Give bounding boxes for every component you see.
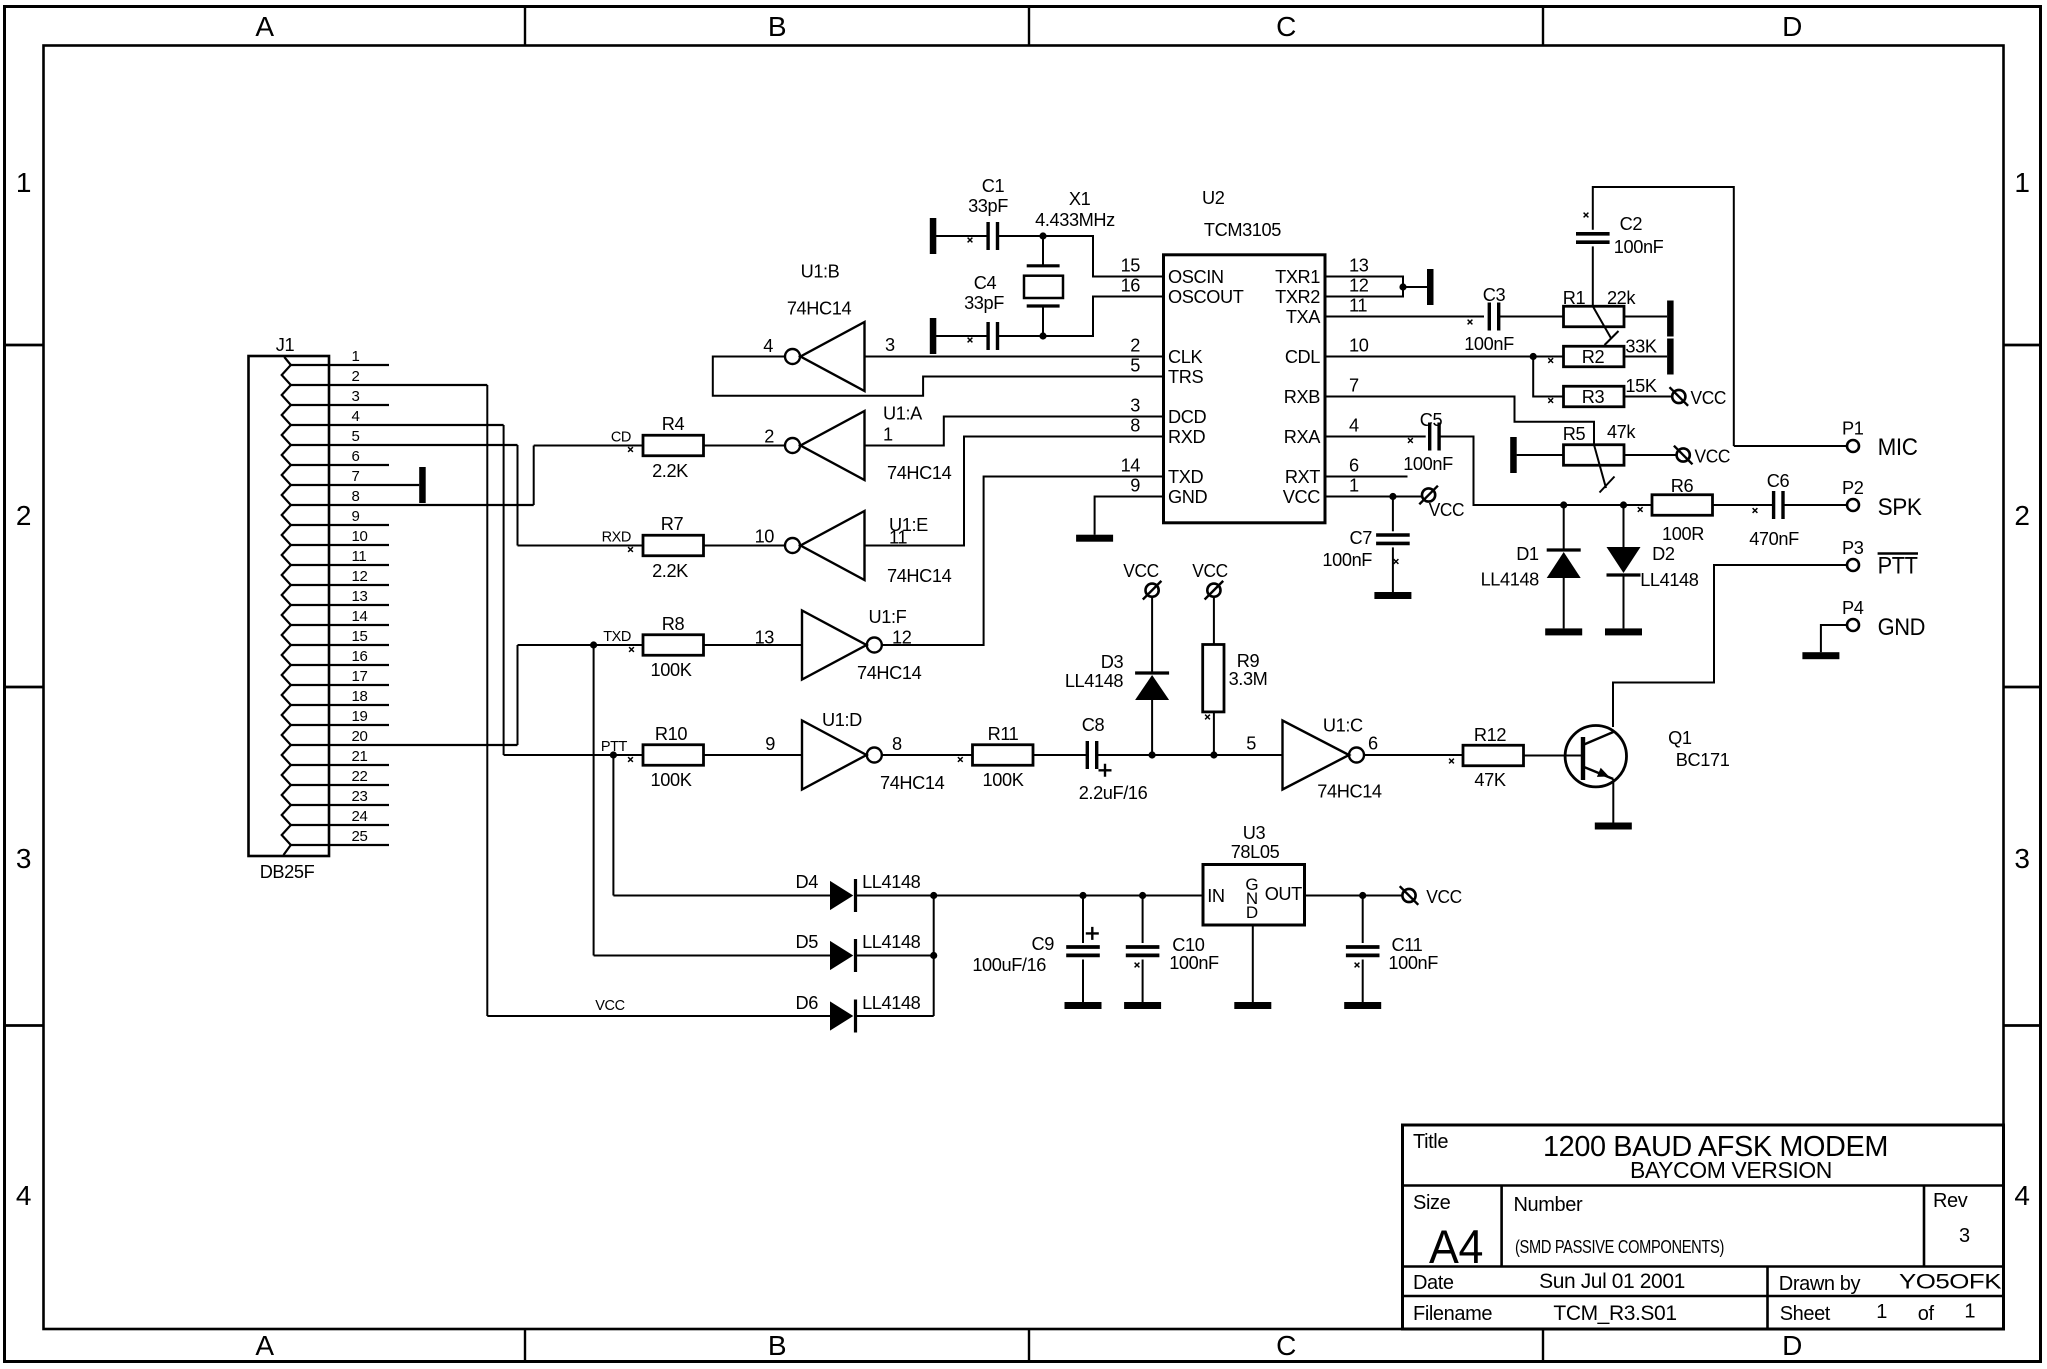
diode D5 xyxy=(594,939,934,972)
svg-text:33K: 33K xyxy=(1625,337,1656,357)
plus sign of C9 xyxy=(1086,927,1099,940)
U2 GND pin wire and ground xyxy=(1076,497,1163,542)
wire VCC pin to power port xyxy=(1325,496,1422,498)
resistor R3 xyxy=(1564,386,1625,407)
wire TXD row xyxy=(518,644,644,646)
wire U1:A output to DCD xyxy=(865,417,1164,446)
svg-text:U1:D: U1:D xyxy=(822,710,862,730)
svg-text:BC171: BC171 xyxy=(1676,750,1730,770)
diode D4 xyxy=(613,879,933,912)
svg-text:100K: 100K xyxy=(651,770,692,790)
power port VCC at D3 xyxy=(1146,584,1159,597)
junction dot D1 xyxy=(1560,501,1567,508)
inverter U1:E xyxy=(801,511,865,580)
svg-text:C: C xyxy=(1276,11,1296,42)
svg-text:R9: R9 xyxy=(1237,651,1260,671)
J1 pin 9 stub and number xyxy=(291,508,389,525)
trimmer R1 body xyxy=(1564,306,1625,327)
svg-text:C11: C11 xyxy=(1392,935,1423,955)
wire C5 to SPK row xyxy=(1439,437,1652,506)
svg-text:1: 1 xyxy=(883,425,893,445)
J1 pin 7 stub and number xyxy=(291,468,419,485)
svg-text:4.433MHz: 4.433MHz xyxy=(1035,210,1115,230)
svg-text:B: B xyxy=(768,1330,786,1361)
svg-text:SPK: SPK xyxy=(1878,494,1922,521)
svg-text:74HC14: 74HC14 xyxy=(857,663,922,683)
svg-text:C4: C4 xyxy=(974,273,997,293)
svg-text:9: 9 xyxy=(352,508,360,525)
wire pin2 to VCC/D6 row xyxy=(486,385,488,1016)
svg-text:8: 8 xyxy=(352,488,360,505)
svg-text:14: 14 xyxy=(352,608,368,625)
regulator U3 body xyxy=(1203,865,1305,926)
J1 pin 15 stub and number xyxy=(291,628,389,645)
pin marker C3 xyxy=(1468,320,1473,325)
wire R12 to Q1 base xyxy=(1524,755,1582,757)
junction dot VCC pin xyxy=(1389,493,1396,500)
svg-text:10: 10 xyxy=(1349,336,1369,356)
svg-text:15K: 15K xyxy=(1625,376,1656,396)
svg-text:25: 25 xyxy=(352,828,368,845)
svg-text:R10: R10 xyxy=(655,724,687,744)
svg-text:19: 19 xyxy=(352,708,368,725)
J1 pin 10 stub and number xyxy=(291,528,389,545)
transistor Q1 xyxy=(1565,726,1632,830)
pin marker C7 xyxy=(1394,559,1399,564)
U2 left pin 8 RXD xyxy=(1130,416,1205,448)
wire R7 to U1:E input xyxy=(704,545,786,547)
ground bar of C1 xyxy=(930,218,937,254)
svg-text:16: 16 xyxy=(1121,276,1141,296)
ground bar of R1 xyxy=(1667,301,1674,337)
J1 pin 23 stub and number xyxy=(291,788,389,805)
svg-text:P1: P1 xyxy=(1842,419,1864,439)
svg-text:2: 2 xyxy=(2014,500,2029,531)
svg-text:U1:C: U1:C xyxy=(1323,716,1363,736)
svg-text:U1:F: U1:F xyxy=(869,607,907,627)
svg-text:1: 1 xyxy=(16,167,31,198)
svg-text:P3: P3 xyxy=(1842,538,1864,558)
svg-text:LL4148: LL4148 xyxy=(1640,570,1699,590)
connector J1 body xyxy=(249,356,330,856)
svg-text:VCC: VCC xyxy=(1691,388,1727,408)
svg-text:3: 3 xyxy=(1959,1225,1970,1247)
svg-text:R3: R3 xyxy=(1582,387,1605,407)
svg-text:12: 12 xyxy=(352,568,368,585)
J1 pin 14 stub and number xyxy=(291,608,389,625)
power port VCC at R3 xyxy=(1672,390,1685,403)
svg-text:PTT: PTT xyxy=(1878,553,1919,580)
wire ground to R5 xyxy=(1517,454,1564,456)
svg-text:13: 13 xyxy=(755,628,775,648)
pin marker C10 xyxy=(1135,963,1140,968)
svg-text:100K: 100K xyxy=(651,660,692,680)
svg-text:OSCOUT: OSCOUT xyxy=(1168,287,1244,307)
svg-text:100nF: 100nF xyxy=(1614,237,1664,257)
svg-text:R8: R8 xyxy=(662,614,685,634)
svg-text:GND: GND xyxy=(1168,487,1207,507)
svg-text:IN: IN xyxy=(1207,886,1224,906)
svg-text:C6: C6 xyxy=(1767,471,1790,491)
trimmer R5 wiper xyxy=(1594,445,1615,493)
svg-text:100uF/16: 100uF/16 xyxy=(972,955,1046,975)
U2 left pin 5 TRS xyxy=(1130,356,1203,388)
svg-text:78L05: 78L05 xyxy=(1231,842,1280,862)
junction dot TXR xyxy=(1399,283,1406,290)
wire R9 node to U1:C xyxy=(1214,754,1283,756)
U2 right pin 1 VCC xyxy=(1283,476,1359,508)
capacitor C10 xyxy=(1124,896,1161,1010)
capacitor C6 xyxy=(1772,491,1775,519)
wire CD row xyxy=(534,445,643,447)
svg-text:D1: D1 xyxy=(1516,544,1539,564)
svg-text:1: 1 xyxy=(1349,476,1359,496)
U2 right pin 12 TXR2 xyxy=(1275,276,1369,308)
wire C6 to SPK port xyxy=(1783,504,1847,506)
svg-text:10: 10 xyxy=(352,528,368,545)
svg-text:C5: C5 xyxy=(1420,410,1443,430)
wire U1:B feedback loop to TRS xyxy=(713,357,1164,396)
wire GND port to ground xyxy=(1802,625,1847,659)
svg-text:C2: C2 xyxy=(1620,214,1643,234)
svg-text:CDL: CDL xyxy=(1285,347,1320,367)
J1 pin 6 stub and number xyxy=(291,448,389,465)
svg-text:74HC14: 74HC14 xyxy=(787,299,852,319)
junction dot C10 xyxy=(1139,892,1146,899)
junction dot R9 xyxy=(1210,751,1217,758)
svg-text:VCC: VCC xyxy=(1695,447,1731,467)
pin marker R8 xyxy=(629,647,634,652)
svg-text:24: 24 xyxy=(352,808,368,825)
wire R8 to U1:F input xyxy=(704,644,803,646)
wire C8 node to R9 xyxy=(1152,754,1214,756)
svg-text:100nF: 100nF xyxy=(1169,953,1219,973)
U2 left pin 16 OSCOUT xyxy=(1121,276,1244,308)
pin marker C4 xyxy=(968,338,973,343)
svg-text:13: 13 xyxy=(1349,256,1369,276)
svg-text:D2: D2 xyxy=(1652,544,1675,564)
pin marker R2 xyxy=(1548,358,1553,363)
svg-text:74HC14: 74HC14 xyxy=(887,566,952,586)
power port VCC at U3 output xyxy=(1402,889,1415,902)
svg-text:A: A xyxy=(255,11,274,42)
svg-text:RXB: RXB xyxy=(1284,387,1320,407)
pin marker R10 xyxy=(628,757,633,762)
U3 GND label xyxy=(1245,875,1258,922)
svg-text:Filename: Filename xyxy=(1413,1303,1492,1325)
wire C4 node to OSCOUT xyxy=(1043,297,1164,337)
svg-text:A4: A4 xyxy=(1429,1220,1483,1273)
svg-text:B: B xyxy=(768,11,786,42)
J1 pin 18 stub and number xyxy=(291,688,389,705)
svg-text:5: 5 xyxy=(1130,356,1140,376)
svg-text:RXD: RXD xyxy=(1168,427,1205,447)
J1 pin 3 stub and number xyxy=(291,388,389,405)
svg-text:4: 4 xyxy=(763,336,773,356)
junction dot C11 xyxy=(1359,892,1366,899)
svg-text:of: of xyxy=(1918,1303,1935,1325)
pin marker C6 xyxy=(1753,508,1758,513)
svg-text:TXR2: TXR2 xyxy=(1275,287,1320,307)
svg-text:3: 3 xyxy=(1130,396,1140,416)
svg-text:2.2K: 2.2K xyxy=(652,461,688,481)
J1 pin 21 stub and number xyxy=(291,748,389,765)
svg-text:Size: Size xyxy=(1413,1192,1451,1214)
capacitor C11 xyxy=(1344,896,1381,1010)
wire R2 to ground bar xyxy=(1624,356,1667,358)
svg-text:BAYCOM VERSION: BAYCOM VERSION xyxy=(1630,1157,1832,1183)
pin marker R11 xyxy=(958,757,963,762)
inverter U1:D xyxy=(802,721,867,790)
pin marker R9 xyxy=(1205,715,1210,720)
svg-text:1: 1 xyxy=(352,348,360,365)
ground bar of R2 xyxy=(1667,339,1674,375)
svg-text:R1: R1 xyxy=(1563,288,1586,308)
wire RXD row xyxy=(518,545,644,547)
svg-text:CLK: CLK xyxy=(1168,347,1202,367)
inverter U1:B xyxy=(801,322,865,391)
svg-text:100K: 100K xyxy=(983,770,1024,790)
svg-text:47K: 47K xyxy=(1474,770,1505,790)
pin marker C1 xyxy=(968,238,973,243)
pin marker C11 xyxy=(1355,963,1360,968)
svg-text:VCC: VCC xyxy=(595,998,624,1014)
svg-text:100nF: 100nF xyxy=(1464,334,1514,354)
left band row dividers xyxy=(5,344,44,347)
svg-text:6: 6 xyxy=(1368,734,1378,754)
U2 right pin 10 CDL xyxy=(1285,336,1369,368)
wire pin8 up to CD row xyxy=(533,446,535,506)
inverter U1:F xyxy=(802,611,867,680)
svg-text:TXR1: TXR1 xyxy=(1275,267,1320,287)
wire RXB to R5 wiper xyxy=(1325,397,1594,445)
wire CDL to R2 xyxy=(1325,356,1564,358)
J1 pin 16 stub and number xyxy=(291,648,389,665)
wire U1:B input to CLK pin xyxy=(865,356,1164,358)
svg-text:9: 9 xyxy=(1130,476,1140,496)
svg-text:74HC14: 74HC14 xyxy=(1317,782,1382,802)
svg-text:Sun Jul 01 2001: Sun Jul 01 2001 xyxy=(1539,1270,1685,1293)
pin marker R3 xyxy=(1548,398,1553,403)
svg-text:R4: R4 xyxy=(662,414,685,434)
svg-text:2: 2 xyxy=(352,368,360,385)
svg-text:16: 16 xyxy=(352,648,368,665)
svg-text:VCC: VCC xyxy=(1283,487,1320,507)
wire U1:C output to R12 xyxy=(1364,754,1463,756)
wire R6 to C6 xyxy=(1713,504,1774,506)
U2 left pin 3 DCD xyxy=(1130,396,1206,428)
svg-text:D: D xyxy=(1782,1330,1802,1361)
J1 pin 12 stub and number xyxy=(291,568,389,585)
capacitor C9 xyxy=(1065,896,1102,1010)
svg-text:R2: R2 xyxy=(1582,347,1605,367)
svg-text:D: D xyxy=(1782,11,1802,42)
power port VCC at R9 xyxy=(1207,584,1220,597)
svg-text:Title: Title xyxy=(1413,1131,1448,1153)
right band row dividers xyxy=(2004,344,2041,347)
svg-text:LL4148: LL4148 xyxy=(1065,671,1124,691)
svg-text:12: 12 xyxy=(1349,276,1369,296)
svg-text:33pF: 33pF xyxy=(968,196,1008,216)
resistor R7 xyxy=(643,535,704,556)
svg-text:3: 3 xyxy=(16,843,31,874)
J1 pin 1 stub and number xyxy=(291,348,389,365)
J1 pin 19 stub and number xyxy=(291,708,389,725)
title block frame xyxy=(1403,1125,2004,1329)
svg-text:C8: C8 xyxy=(1082,715,1105,735)
svg-text:1: 1 xyxy=(1964,1301,1975,1323)
wire U1:D output to R11 xyxy=(882,754,973,756)
junction dot PTT row xyxy=(610,751,617,758)
svg-text:3: 3 xyxy=(885,335,895,355)
svg-text:RXD: RXD xyxy=(602,530,631,546)
svg-text:D4: D4 xyxy=(796,872,819,892)
svg-text:13: 13 xyxy=(352,588,368,605)
U2 right pin 13 TXR1 xyxy=(1275,256,1369,288)
svg-text:8: 8 xyxy=(892,734,902,754)
J1 pin 2 stub and number xyxy=(291,368,488,385)
svg-text:LL4148: LL4148 xyxy=(862,872,921,892)
svg-text:7: 7 xyxy=(352,468,360,485)
U2 right pin 7 RXB xyxy=(1284,376,1359,408)
svg-text:C10: C10 xyxy=(1172,935,1204,955)
trimmer R5 body xyxy=(1564,445,1625,466)
svg-text:100nF: 100nF xyxy=(1388,953,1438,973)
resistor R10 xyxy=(643,745,704,766)
svg-text:22k: 22k xyxy=(1607,288,1636,308)
svg-text:TXA: TXA xyxy=(1286,307,1321,327)
capacitor C2 xyxy=(1576,187,1734,446)
port P2 circle xyxy=(1847,499,1859,511)
ground bar of TXR xyxy=(1427,269,1434,305)
U2 right pin 6 RXT xyxy=(1285,456,1359,488)
J1 pin 22 stub and number xyxy=(291,768,389,785)
svg-text:VCC: VCC xyxy=(1429,500,1465,520)
svg-text:10: 10 xyxy=(755,527,775,547)
svg-text:Rev: Rev xyxy=(1933,1190,1968,1212)
svg-text:100nF: 100nF xyxy=(1403,454,1453,474)
svg-text:(SMD PASSIVE COMPONENTS): (SMD PASSIVE COMPONENTS) xyxy=(1515,1236,1724,1257)
power port VCC at U2 xyxy=(1422,488,1435,501)
svg-text:CD: CD xyxy=(611,430,631,446)
svg-text:15: 15 xyxy=(1121,256,1141,276)
resistor R6 xyxy=(1652,495,1713,516)
resistor R4 xyxy=(643,435,704,456)
svg-text:14: 14 xyxy=(1121,456,1141,476)
svg-text:C3: C3 xyxy=(1483,285,1506,305)
port P1 circle xyxy=(1847,440,1859,452)
svg-text:TRS: TRS xyxy=(1168,367,1203,387)
svg-text:A: A xyxy=(255,1330,274,1361)
svg-text:74HC14: 74HC14 xyxy=(880,773,945,793)
svg-text:8: 8 xyxy=(1130,416,1140,436)
J1 pin 20 stub and number xyxy=(291,728,518,745)
svg-text:TXD: TXD xyxy=(1168,467,1203,487)
svg-text:11: 11 xyxy=(1349,296,1367,316)
wire PTT junction down to D4 xyxy=(612,755,614,896)
svg-text:U1:B: U1:B xyxy=(801,262,840,282)
U2 right pin 11 TXA xyxy=(1286,296,1368,328)
J1 pin 24 stub and number xyxy=(291,808,389,825)
U2 left pin 14 TXD xyxy=(1121,456,1204,488)
diode D6 xyxy=(487,1000,933,1033)
diode D3 xyxy=(1135,597,1169,755)
wire MIC from C2 loop xyxy=(1734,445,1847,447)
svg-text:1: 1 xyxy=(1876,1301,1887,1323)
junction dot CDL xyxy=(1530,353,1537,360)
svg-text:C: C xyxy=(1276,1330,1296,1361)
junction dot X1 bottom xyxy=(1039,332,1046,339)
svg-text:J1: J1 xyxy=(276,335,295,355)
resistor R11 xyxy=(973,745,1034,766)
svg-text:U2: U2 xyxy=(1202,188,1225,208)
svg-text:RXT: RXT xyxy=(1285,467,1320,487)
svg-text:LL4148: LL4148 xyxy=(862,993,921,1013)
svg-text:4: 4 xyxy=(352,408,360,425)
pin marker C2 xyxy=(1584,213,1589,218)
U2 left pin 15 OSCIN xyxy=(1121,256,1224,288)
svg-text:Date: Date xyxy=(1413,1272,1454,1294)
svg-text:18: 18 xyxy=(352,688,368,705)
wire CDL node down to R3 xyxy=(1533,357,1563,397)
svg-text:X1: X1 xyxy=(1069,189,1091,209)
svg-text:9: 9 xyxy=(765,734,775,754)
svg-text:20: 20 xyxy=(352,728,368,745)
crystal X1 xyxy=(1024,236,1063,336)
svg-text:RXA: RXA xyxy=(1284,427,1321,447)
svg-text:R5: R5 xyxy=(1563,424,1586,444)
diode D1 xyxy=(1545,505,1582,635)
resistor R8 xyxy=(643,635,704,656)
resistor R2 xyxy=(1564,346,1625,367)
wire diode cathodes vertical xyxy=(933,896,935,1017)
capacitor C5 xyxy=(1428,423,1431,451)
U3 ground leg xyxy=(1234,925,1271,1009)
svg-text:2: 2 xyxy=(16,500,31,531)
svg-text:1: 1 xyxy=(2014,167,2029,198)
svg-text:D6: D6 xyxy=(796,993,819,1013)
wire R4 to U1:A input xyxy=(704,445,786,447)
wire R3 to VCC xyxy=(1624,396,1672,398)
capacitor C4 xyxy=(936,322,1043,350)
top band column dividers xyxy=(524,7,526,46)
svg-text:5: 5 xyxy=(352,428,360,445)
svg-text:3: 3 xyxy=(352,388,360,405)
svg-text:23: 23 xyxy=(352,788,368,805)
wire pin4 down to PTT row xyxy=(503,425,505,755)
junction dot D5 xyxy=(930,952,937,959)
svg-text:6: 6 xyxy=(1349,456,1359,476)
svg-text:15: 15 xyxy=(352,628,368,645)
svg-text:3: 3 xyxy=(2014,843,2029,874)
wire U3 OUT to VCC xyxy=(1305,895,1403,897)
port P3 circle xyxy=(1847,559,1859,571)
svg-text:R12: R12 xyxy=(1474,725,1506,745)
junction dot D3 xyxy=(1149,751,1156,758)
svg-text:P4: P4 xyxy=(1842,598,1864,618)
svg-text:21: 21 xyxy=(352,748,368,765)
resistor R12 xyxy=(1463,745,1524,766)
svg-text:33pF: 33pF xyxy=(964,293,1004,313)
svg-text:LL4148: LL4148 xyxy=(862,932,921,952)
svg-text:4: 4 xyxy=(2014,1180,2029,1211)
svg-text:Number: Number xyxy=(1514,1194,1583,1216)
J1 pin 25 stub and number xyxy=(291,828,389,845)
svg-text:6: 6 xyxy=(352,448,360,465)
svg-text:OSCIN: OSCIN xyxy=(1168,267,1224,287)
inverter U1:C xyxy=(1283,721,1365,790)
resistor R9 vertical xyxy=(1203,597,1224,755)
